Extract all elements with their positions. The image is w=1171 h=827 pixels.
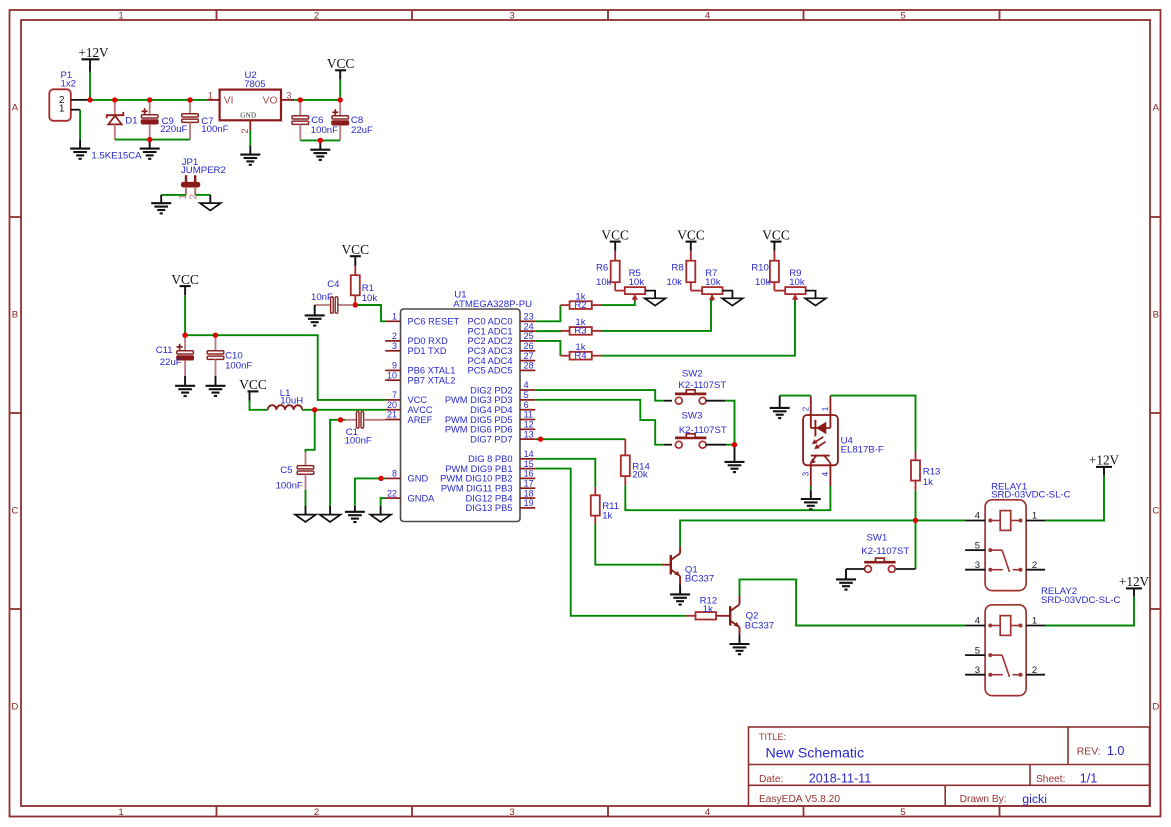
svg-text:21: 21 <box>387 410 397 420</box>
U1 pin 24 (PC1 ADC1) <box>520 330 535 332</box>
U1 pin 16 (PWM DIG10 PB2) <box>520 477 535 479</box>
RELAY1 coil <box>1000 511 1011 531</box>
U2 pin 2 <box>249 120 251 130</box>
svg-text:10k: 10k <box>362 293 378 304</box>
svg-text:100nF: 100nF <box>311 125 338 136</box>
svg-text:4: 4 <box>705 11 711 22</box>
svg-text:3: 3 <box>801 471 810 476</box>
svg-text:SRD-03VDC-SL-C: SRD-03VDC-SL-C <box>991 489 1071 500</box>
capacitor C6 <box>299 100 301 116</box>
U4 pin 1 <box>829 396 831 428</box>
resistor R10 <box>773 251 775 261</box>
svg-text:3: 3 <box>509 807 514 818</box>
resistor R13 <box>915 452 917 461</box>
ground (U2) <box>240 154 260 156</box>
U1 pin 22 (GNDA) <box>385 497 400 499</box>
svg-text:5: 5 <box>524 390 529 400</box>
node C10 <box>213 333 218 338</box>
svg-text:K2-1107ST: K2-1107ST <box>678 380 726 391</box>
U1 pin 28 (PC5 ADC5) <box>520 369 535 371</box>
svg-text:8: 8 <box>392 469 397 479</box>
svg-text:Date:: Date: <box>759 774 783 785</box>
svg-text:10k: 10k <box>705 277 721 288</box>
svg-text:1: 1 <box>208 90 213 101</box>
svg-text:C11: C11 <box>156 345 173 356</box>
svg-text:1: 1 <box>59 103 64 114</box>
wire L1 to AVCC pin 20 <box>302 409 385 411</box>
ground (input rail) <box>140 148 160 150</box>
svg-text:9: 9 <box>392 361 397 371</box>
wire GNDA pin 22 to earth <box>381 498 386 506</box>
svg-text:1: 1 <box>118 807 123 818</box>
wire R5 right terminal to earth <box>645 291 655 299</box>
svg-text:1x2: 1x2 <box>61 79 76 90</box>
U1 pin 20 (AVCC) <box>385 409 400 411</box>
switch SW1 <box>864 561 895 564</box>
svg-text:1k: 1k <box>703 604 713 615</box>
capacitor C5 <box>305 452 307 466</box>
svg-text:R13: R13 <box>923 466 941 477</box>
svg-text:5: 5 <box>900 11 905 22</box>
svg-text:12: 12 <box>524 420 534 430</box>
svg-text:C5: C5 <box>280 465 292 476</box>
svg-text:10k: 10k <box>596 277 612 288</box>
svg-text:PC1 ADC1: PC1 ADC1 <box>468 326 513 336</box>
node input rail at +12V drop <box>87 97 92 102</box>
svg-text:4: 4 <box>705 807 711 818</box>
svg-text:1.5KE15CA: 1.5KE15CA <box>91 151 142 162</box>
P1 pin 1 <box>71 109 80 111</box>
relay RELAY1 SRD-03VDC-SL-C <box>985 500 1026 591</box>
svg-text:VCC: VCC <box>342 242 370 257</box>
U1 pin 4 (DIG2 PD2) <box>520 389 535 391</box>
svg-text:7805: 7805 <box>244 79 265 90</box>
U2 pin 1 <box>207 99 220 101</box>
svg-text:+12V: +12V <box>78 45 109 60</box>
svg-text:17: 17 <box>524 478 534 488</box>
U1 pin 3 (PD1 TXD) <box>385 350 400 352</box>
svg-text:5: 5 <box>975 540 980 551</box>
node ground rail / C9 <box>147 137 152 142</box>
wire input rail +12V <box>88 99 207 101</box>
svg-text:19: 19 <box>524 498 534 508</box>
wire AREF net to earth <box>330 420 346 506</box>
svg-text:23: 23 <box>524 312 534 322</box>
svg-text:gicki: gicki <box>1022 792 1047 806</box>
svg-text:VCC: VCC <box>762 227 790 242</box>
ground (SW1) <box>836 578 856 580</box>
resistor R3 <box>560 330 569 332</box>
U1 pin 15 (PWM DIG9 PB1) <box>520 468 535 470</box>
regulator U2 7805 <box>220 90 281 121</box>
node relay1 coil net <box>913 518 918 523</box>
resistor R12 <box>686 615 695 617</box>
svg-text:R6: R6 <box>596 262 608 273</box>
svg-text:R8: R8 <box>671 262 683 273</box>
svg-text:100nF: 100nF <box>276 480 303 491</box>
wire reset to pin 1 <box>355 305 385 321</box>
wire +12V to relay2 pin 1 <box>1045 597 1134 626</box>
wire C4 to ground <box>314 305 316 315</box>
node SW2/SW3 ground net <box>732 442 737 447</box>
svg-text:100nF: 100nF <box>201 124 228 135</box>
title block <box>749 727 1150 806</box>
svg-text:28: 28 <box>524 361 534 371</box>
svg-text:VO: VO <box>263 95 278 106</box>
svg-text:R4: R4 <box>574 351 587 362</box>
wire output ground rail <box>300 139 340 141</box>
svg-text:2: 2 <box>239 128 250 133</box>
svg-text:4: 4 <box>975 616 980 627</box>
svg-text:5: 5 <box>975 645 980 656</box>
wire GND pin 8 to ground <box>355 478 385 506</box>
svg-text:1.0: 1.0 <box>1107 744 1125 758</box>
svg-text:2: 2 <box>392 331 397 341</box>
U1 pin 12 (PWM DIG6 PD6) <box>520 428 535 430</box>
svg-text:K2-1107ST: K2-1107ST <box>679 425 727 436</box>
svg-text:PD1 TXD: PD1 TXD <box>408 346 447 356</box>
ground (P1) <box>70 148 90 150</box>
earth ground (AREF/C1) <box>320 515 341 522</box>
wire P1 pin1 to ground <box>79 110 81 140</box>
capacitor C4 <box>338 304 353 306</box>
svg-text:5: 5 <box>900 807 905 818</box>
node AVCC / C5 branch <box>312 407 317 412</box>
U2 pin 3 <box>281 99 294 101</box>
svg-text:2018-11-11: 2018-11-11 <box>809 771 872 785</box>
relay RELAY2 SRD-03VDC-SL-C <box>985 605 1026 696</box>
svg-text:3: 3 <box>509 11 514 22</box>
capacitor C8 <box>339 100 341 116</box>
svg-text:2: 2 <box>1032 560 1037 571</box>
node reset <box>353 302 358 307</box>
P1 pin 2 <box>71 99 88 101</box>
svg-text:Drawn By:: Drawn By: <box>960 794 1007 805</box>
svg-text:JUMPER2: JUMPER2 <box>181 165 226 176</box>
wire U4 pin3 to ground <box>810 487 812 491</box>
node C11 <box>182 333 187 338</box>
node AREF <box>338 417 343 422</box>
svg-text:PWM DIG3 PD3: PWM DIG3 PD3 <box>445 395 513 405</box>
wire JP1 pin1 to ground <box>161 194 186 196</box>
wire pin 14 to R11 <box>535 459 595 487</box>
svg-text:R2: R2 <box>574 300 586 311</box>
earth ground (JP1 pin2) <box>200 203 221 210</box>
svg-text:C4: C4 <box>327 279 340 290</box>
svg-text:PD0 RXD: PD0 RXD <box>408 336 449 346</box>
svg-text:AREF: AREF <box>408 415 433 425</box>
U1 pin 18 (DIG12 PB4) <box>520 497 535 499</box>
earth ground (R9) <box>805 298 826 305</box>
svg-text:DIG2 PD2: DIG2 PD2 <box>470 385 512 395</box>
inductor L1 <box>268 405 277 410</box>
resistor R1 <box>354 266 356 275</box>
svg-text:K2-1107ST: K2-1107ST <box>861 546 909 557</box>
wire pin 5 to SW3 <box>535 400 664 445</box>
wire R14 to opto pin 4 rail <box>625 485 830 510</box>
svg-text:AVCC: AVCC <box>408 405 433 415</box>
RELAY1 switch contacts <box>988 548 992 552</box>
U1 pin 17 (PWM DIG11 PB3) <box>520 487 535 489</box>
svg-text:1k: 1k <box>602 510 612 521</box>
U4 phototransistor <box>811 455 830 457</box>
U4 pin 2 (anode side left) <box>810 396 812 428</box>
ground (SW2 SW3) <box>725 461 745 463</box>
svg-text:Sheet:: Sheet: <box>1036 774 1065 785</box>
svg-text:VCC: VCC <box>239 377 267 392</box>
wire VCC down to decoupling rail <box>184 295 186 335</box>
wire node to SW1 <box>915 520 917 569</box>
earth ground (R7) <box>722 298 743 305</box>
svg-text:4: 4 <box>524 380 529 390</box>
node output rail / C6 <box>298 97 303 102</box>
node output ground rail <box>318 138 323 143</box>
svg-text:11: 11 <box>524 410 533 420</box>
svg-text:A: A <box>1153 103 1160 114</box>
node output rail / VCC C8 <box>338 97 343 102</box>
node pin 8 <box>378 476 383 481</box>
svg-text:PWM DIG9 PB1: PWM DIG9 PB1 <box>445 464 512 474</box>
wire +12V down to input rail <box>89 72 91 100</box>
wire R9 right terminal to earth <box>806 291 816 299</box>
capacitor C10 <box>215 335 217 351</box>
svg-text:26: 26 <box>524 341 534 351</box>
svg-text:SRD-03VDC-SL-C: SRD-03VDC-SL-C <box>1041 595 1121 606</box>
svg-text:2: 2 <box>801 406 810 411</box>
wire SW1 to ground <box>846 568 865 570</box>
svg-text:R10: R10 <box>751 262 769 273</box>
RELAY2 pin 3 <box>965 674 985 676</box>
svg-text:6: 6 <box>524 400 529 410</box>
resistor R11 <box>594 487 596 495</box>
wire pin 23 to R2 <box>535 305 560 321</box>
RELAY1 pin 3 <box>965 569 985 571</box>
svg-text:220uF: 220uF <box>160 124 187 135</box>
svg-text:PC6 RESET: PC6 RESET <box>408 317 460 327</box>
svg-text:R3: R3 <box>574 326 586 337</box>
svg-text:PB6 XTAL1: PB6 XTAL1 <box>408 366 456 376</box>
U1 pin 19 (DIG13 PB5) <box>520 507 535 509</box>
svg-text:DIG4 PD4: DIG4 PD4 <box>470 405 512 415</box>
switch SW3 <box>675 437 706 440</box>
svg-text:VCC: VCC <box>601 227 629 242</box>
U1 pin 27 (PC4 ADC4) <box>520 360 535 362</box>
svg-text:1: 1 <box>821 406 830 411</box>
resistor R8 <box>690 251 692 261</box>
svg-text:15: 15 <box>524 459 534 469</box>
switch SW2 <box>675 393 706 396</box>
U4 pin 3 <box>810 463 812 487</box>
wire JP1 pin2 to earth <box>195 194 210 196</box>
wire R7 right terminal to earth <box>723 291 733 299</box>
RELAY1 pin 2 <box>1026 569 1045 571</box>
svg-text:BC337: BC337 <box>745 621 774 632</box>
U1 pin 1 (PC6 RESET) <box>385 320 400 322</box>
wire U4 pin2 to ground <box>780 395 811 397</box>
U4 light arrows <box>813 437 823 443</box>
svg-text:DIG7 PD7: DIG7 PD7 <box>470 434 512 444</box>
svg-text:10uH: 10uH <box>280 395 303 406</box>
svg-text:+12V: +12V <box>1089 453 1120 468</box>
node pin 13 <box>538 436 543 441</box>
wire R4 to R9 wiper <box>601 298 795 356</box>
wire node down to C5 <box>306 410 315 452</box>
svg-text:A: A <box>12 103 19 114</box>
node input rail / D1 <box>112 97 117 102</box>
svg-text:3: 3 <box>975 665 980 676</box>
wire node to relay1 pin 4 <box>916 519 966 521</box>
svg-text:VCC: VCC <box>408 395 428 405</box>
svg-text:VCC: VCC <box>327 56 355 71</box>
svg-text:100nF: 100nF <box>225 361 252 372</box>
svg-text:1: 1 <box>392 312 397 322</box>
node input rail / C7 <box>187 97 192 102</box>
wire SW2 to SW3 net <box>706 400 725 402</box>
svg-text:PWM DIG10 PB2: PWM DIG10 PB2 <box>440 474 512 484</box>
svg-text:1/1: 1/1 <box>1080 771 1098 785</box>
svg-text:VCC: VCC <box>677 227 705 242</box>
RELAY1 pin 5 <box>965 549 985 551</box>
svg-text:22uF: 22uF <box>351 125 373 136</box>
wire C5 to earth <box>305 490 307 506</box>
svg-text:GND: GND <box>240 111 256 120</box>
ground (C11) <box>175 385 195 387</box>
svg-text:EasyEDA V5.8.20: EasyEDA V5.8.20 <box>759 794 840 805</box>
resistor R4 <box>560 355 569 357</box>
svg-text:New Schematic: New Schematic <box>766 746 865 762</box>
resistor R14 <box>624 439 626 455</box>
ground (C10) <box>206 385 226 387</box>
ground (JP1 pin1) <box>151 202 171 204</box>
svg-text:PC0 ADC0: PC0 ADC0 <box>468 317 513 327</box>
wire pin 24 to R3 <box>535 330 560 332</box>
svg-text:27: 27 <box>524 351 534 361</box>
svg-text:1: 1 <box>1032 511 1037 522</box>
RELAY2 pin 4 <box>965 625 985 627</box>
U1 pin 6 (DIG4 PD4) <box>520 409 535 411</box>
svg-text:3: 3 <box>392 341 397 351</box>
wire U2 pin2 to ground <box>249 130 251 146</box>
svg-text:7: 7 <box>392 390 397 400</box>
ground (C4) <box>305 314 325 316</box>
wire +12V to relay1 pin 1 <box>1045 475 1104 520</box>
svg-text:SW2: SW2 <box>682 368 703 379</box>
ground (output rail) <box>310 149 330 151</box>
svg-text:PC3 ADC3: PC3 ADC3 <box>468 346 513 356</box>
potentiometer R5 <box>615 290 625 292</box>
svg-text:14: 14 <box>524 449 534 459</box>
svg-text:C: C <box>11 506 18 517</box>
RELAY1 pin 1 <box>1026 520 1045 522</box>
svg-text:20: 20 <box>387 400 397 410</box>
U4 LED <box>811 427 831 429</box>
svg-text:18: 18 <box>524 488 534 498</box>
U1 pin 23 (PC0 ADC0) <box>520 320 535 322</box>
wire pin 4 to SW2 <box>535 390 664 401</box>
svg-text:4: 4 <box>975 511 980 522</box>
capacitor C1 on AREF <box>346 419 358 421</box>
wire pin 25 to R4 <box>535 341 560 356</box>
U1 pin 26 (PC3 ADC3) <box>520 350 535 352</box>
svg-text:3: 3 <box>975 560 980 571</box>
U1 pin 21 (AREF) <box>385 419 400 421</box>
wire R2 to R5 wiper <box>601 298 635 305</box>
svg-text:1k: 1k <box>923 477 933 488</box>
transistor Q1 BC337 <box>670 555 672 575</box>
svg-text:GNDA: GNDA <box>408 493 436 503</box>
svg-text:PB7 XTAL2: PB7 XTAL2 <box>408 376 456 386</box>
wire Q1 collector to relay1 net <box>679 546 681 553</box>
wire R13 to relay1 coil net <box>915 491 917 521</box>
svg-text:VCC: VCC <box>171 272 199 287</box>
wire Q2 emitter to ground <box>739 627 741 635</box>
svg-text:SW1: SW1 <box>867 533 888 544</box>
RELAY1 pin 4 <box>965 520 985 522</box>
ground (pin 8) <box>345 511 365 513</box>
wire VCC to L1 <box>250 401 268 410</box>
svg-text:2: 2 <box>314 11 319 22</box>
ground (U4 pin3) <box>801 498 821 500</box>
svg-text:PWM DIG5 PD5: PWM DIG5 PD5 <box>445 415 513 425</box>
svg-text:2: 2 <box>314 807 319 818</box>
potentiometer R9 <box>774 290 785 292</box>
U1 pin 10 (PB7 XTAL2) <box>385 379 400 381</box>
svg-text:EL817B-F: EL817B-F <box>841 444 884 455</box>
svg-text:10k: 10k <box>667 277 683 288</box>
svg-text:10k: 10k <box>629 277 645 288</box>
wire U4 pin1 to R13 <box>830 396 915 452</box>
wire VCC flag to output rail <box>339 80 341 100</box>
svg-text:16: 16 <box>524 469 534 479</box>
node input rail / C9 <box>147 97 152 102</box>
capacitor C11 <box>184 335 186 351</box>
wire R3 to R7 wiper <box>601 298 711 331</box>
wire input ground rail <box>115 139 190 141</box>
U1 pin 5 (PWM DIG3 PD3) <box>520 399 535 401</box>
wire Q2 collector to relay2 net <box>739 596 741 605</box>
transistor Q2 BC337 <box>729 606 731 626</box>
svg-text:25: 25 <box>524 331 534 341</box>
svg-text:VI: VI <box>224 95 234 106</box>
U4 pin 4 <box>829 463 831 486</box>
U1 pin 9 (PB6 XTAL1) <box>385 369 400 371</box>
wire decoupling rail to chip VCC pin 7 <box>185 335 385 400</box>
RELAY2 pin 5 <box>965 654 985 656</box>
wire Q1 emitter to ground <box>679 576 681 585</box>
RELAY2 coil <box>1000 616 1011 636</box>
svg-text:D: D <box>11 702 18 713</box>
svg-text:22uF: 22uF <box>160 357 182 368</box>
svg-text:ATMEGA328P-PU: ATMEGA328P-PU <box>453 299 532 310</box>
svg-text:1: 1 <box>118 11 123 22</box>
svg-text:4: 4 <box>821 471 830 476</box>
resistor R2 <box>560 304 569 306</box>
svg-text:13: 13 <box>524 429 534 439</box>
svg-text:PWM DIG6 PD6: PWM DIG6 PD6 <box>445 425 513 435</box>
svg-text:REV:: REV: <box>1077 747 1101 758</box>
svg-text:100nF: 100nF <box>345 435 372 446</box>
wire R11 to Q1 base <box>595 525 662 565</box>
connector P1 <box>49 89 71 121</box>
U1 pin 7 (VCC) <box>385 399 400 401</box>
svg-text:22: 22 <box>387 488 397 498</box>
resistor R6 <box>614 251 616 261</box>
svg-text:GND: GND <box>408 474 429 484</box>
svg-text:PC4 ADC4: PC4 ADC4 <box>468 356 513 366</box>
svg-text:DIG13 PB5: DIG13 PB5 <box>465 503 512 513</box>
svg-text:10k: 10k <box>755 277 771 288</box>
wire U2 output rail <box>294 99 340 101</box>
